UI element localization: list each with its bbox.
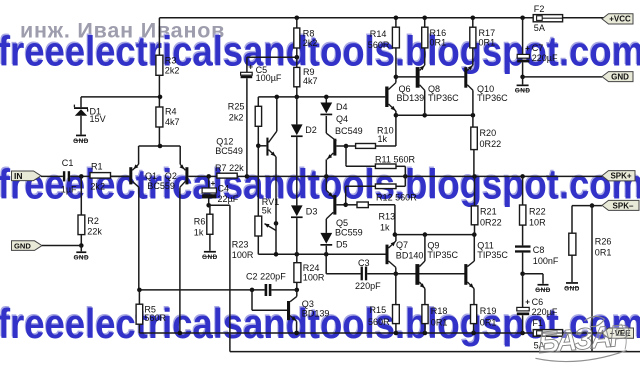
svg-text:R6: R6 [194,216,206,226]
svg-text:4k7: 4k7 [165,117,180,127]
svg-text:R14: R14 [370,29,387,39]
svg-text:2k2: 2k2 [229,112,244,122]
svg-text:R20: R20 [480,128,497,138]
svg-text:SPK+: SPK+ [610,172,631,181]
svg-text:GND: GND [611,72,629,81]
svg-text:BC559: BC559 [147,181,175,191]
svg-text:R4: R4 [165,107,177,117]
svg-text:C1: C1 [62,158,74,168]
svg-text:15V: 15V [90,114,106,124]
svg-text:R7 22k: R7 22k [215,163,244,173]
svg-text:2k2: 2k2 [90,181,105,191]
svg-text:5k: 5k [262,205,272,215]
svg-text:R23: R23 [232,240,249,250]
svg-text:22k: 22k [87,226,102,236]
svg-text:1k: 1k [380,223,390,233]
svg-text:100µF: 100µF [256,73,282,83]
svg-text:R25: R25 [228,101,245,111]
svg-text:5A: 5A [534,23,546,33]
svg-text:D5: D5 [336,239,348,249]
svg-text:0R1: 0R1 [479,37,496,47]
svg-text:TIP36C: TIP36C [477,93,508,103]
svg-text:BC549: BC549 [215,146,243,156]
svg-text:2k2: 2k2 [165,66,180,76]
svg-text:R15: R15 [370,305,387,315]
svg-text:220µF: 220µF [532,307,558,317]
svg-text:TIP35C: TIP35C [477,250,508,260]
svg-text:1k: 1k [194,227,204,237]
svg-text:freeelectricalsandtools.blogsp: freeelectricalsandtools.blogspot.com [0,28,640,75]
svg-text:TIP36C: TIP36C [428,93,459,103]
svg-text:0R22: 0R22 [480,139,502,149]
svg-text:0R1: 0R1 [430,37,447,47]
svg-text:BC559: BC559 [335,228,363,238]
svg-text:Q2: Q2 [165,171,177,181]
svg-text:0R1: 0R1 [431,317,448,327]
svg-text:F2: F2 [534,4,545,14]
svg-text:1µF: 1µF [61,184,77,194]
svg-text:+VCC: +VCC [609,15,631,24]
svg-text:R2: R2 [87,216,99,226]
svg-text:SPK–: SPK– [613,201,634,210]
svg-text:Q4: Q4 [336,114,348,124]
svg-text:GND: GND [535,287,551,294]
svg-text:560R: 560R [144,313,166,323]
svg-text:C8: C8 [533,245,545,255]
svg-text:22µF: 22µF [218,194,239,204]
svg-text:R18: R18 [431,306,448,316]
svg-text:+: + [248,63,253,72]
svg-text:D2: D2 [305,125,317,135]
svg-text:0R1: 0R1 [595,248,612,258]
svg-text:+: + [211,179,216,188]
svg-text:D3: D3 [306,207,318,217]
svg-text:560R: 560R [368,317,390,327]
svg-text:IN: IN [14,171,23,181]
svg-text:C3: C3 [358,258,370,268]
svg-text:BD139: BD139 [302,308,330,318]
svg-text:GND: GND [515,88,531,95]
svg-text:R11 560R: R11 560R [375,154,416,164]
svg-text:Q7: Q7 [396,240,408,250]
svg-text:GND: GND [73,255,89,262]
svg-text:100R: 100R [232,250,254,260]
svg-text:BC549: BC549 [335,126,363,136]
svg-text:GND: GND [73,138,89,145]
svg-text:+: + [525,44,530,53]
svg-text:100R: 100R [303,272,325,282]
svg-text:C2 220pF: C2 220pF [246,272,286,282]
svg-text:Q12: Q12 [216,137,233,147]
svg-text:GND: GND [14,241,31,250]
svg-text:R19: R19 [480,306,497,316]
svg-text:TIP35C: TIP35C [427,250,458,260]
svg-text:C4: C4 [218,183,230,193]
svg-text:0R22: 0R22 [480,217,502,227]
svg-text:D4: D4 [336,102,348,112]
svg-text:R26: R26 [595,237,612,247]
svg-text:0R1: 0R1 [480,317,497,327]
svg-text:GND: GND [564,285,580,292]
svg-text:BD139: BD139 [397,93,425,103]
svg-text:R12 560R: R12 560R [376,193,417,203]
svg-text:Q1: Q1 [145,171,157,181]
svg-text:560R: 560R [368,40,390,50]
svg-text:C6: C6 [532,297,544,307]
svg-text:R22: R22 [529,206,546,216]
svg-text:GND: GND [202,254,218,261]
svg-text:R1: R1 [91,162,103,172]
svg-text:10R: 10R [529,217,546,227]
svg-text:2k2: 2k2 [303,38,318,48]
svg-text:220µF: 220µF [532,53,558,63]
svg-text:R3: R3 [165,55,177,65]
svg-text:BD140: BD140 [396,250,424,260]
svg-text:+: + [525,298,530,307]
svg-text:C7: C7 [532,43,544,53]
svg-text:R13: R13 [379,212,396,222]
svg-text:1k: 1k [378,134,388,144]
svg-text:4k7: 4k7 [303,76,318,86]
svg-text:R8: R8 [303,29,315,39]
svg-text:220pF: 220pF [355,281,381,291]
svg-text:100nF: 100nF [533,256,559,266]
svg-text:R21: R21 [480,206,497,216]
